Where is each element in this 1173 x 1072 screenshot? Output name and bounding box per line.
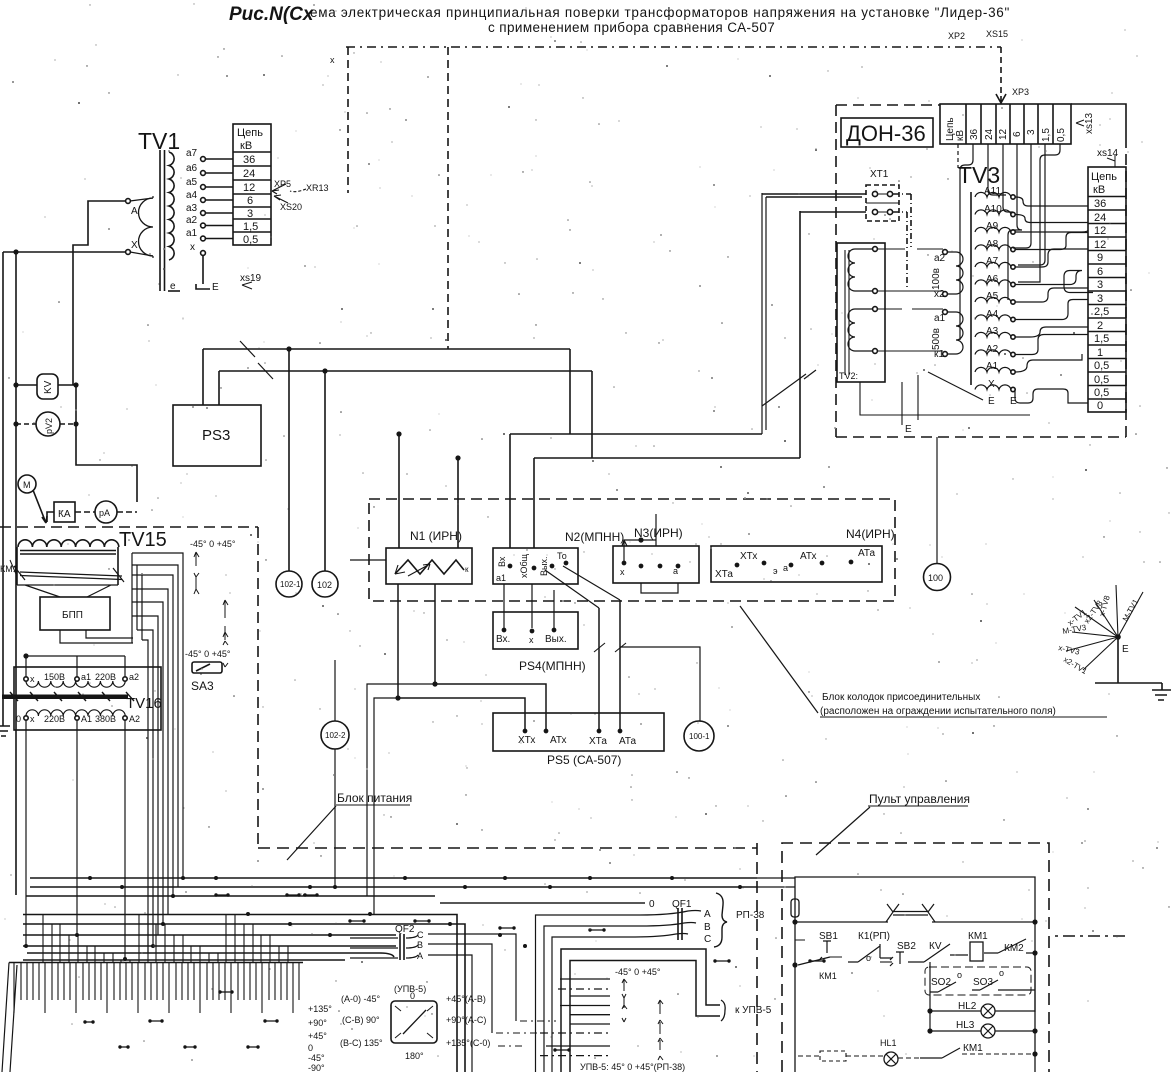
svg-text:а1: а1 bbox=[81, 672, 91, 682]
TV16 bottom winding bbox=[26, 710, 125, 716]
svg-text:XP5: XP5 bbox=[274, 179, 291, 189]
wires winding to table bbox=[205, 159, 233, 239]
svg-text:кВ: кВ bbox=[240, 140, 252, 152]
svg-text:(В-С) 135°: (В-С) 135° bbox=[340, 1038, 383, 1048]
svg-text:xs13: xs13 bbox=[1084, 112, 1095, 134]
svg-text:Х: Х bbox=[988, 379, 995, 390]
svg-text:1: 1 bbox=[1097, 347, 1103, 359]
wire X left bbox=[3, 251, 126, 253]
wire dashed row bbox=[798, 1056, 920, 1058]
wire top feed lines into pult bbox=[757, 878, 795, 887]
comb teeth bbox=[14, 963, 299, 1014]
wire right of pult top bbox=[795, 876, 1035, 878]
svg-text:Рис.N(Сх: Рис.N(Сх bbox=[229, 4, 315, 25]
svg-text:а1: а1 bbox=[496, 573, 506, 583]
svg-text:е: е bbox=[170, 281, 176, 292]
wire N2 to PS4 bbox=[504, 584, 554, 628]
link symbol on top wire bbox=[886, 904, 935, 922]
svg-text:-45° 0 +45°: -45° 0 +45° bbox=[190, 539, 236, 549]
svg-text:ХТа: ХТа bbox=[589, 736, 607, 747]
svg-text:0,5: 0,5 bbox=[1094, 360, 1109, 372]
connector slash marks bbox=[240, 341, 273, 379]
wire M diagonal arrow bbox=[33, 490, 47, 523]
svg-text:24: 24 bbox=[243, 168, 255, 180]
breaker QF1 bars bbox=[678, 908, 682, 940]
svg-text:+45°(А-В): +45°(А-В) bbox=[446, 994, 486, 1004]
transformer TV3 core bbox=[970, 192, 972, 385]
wire TV16 terminal drops bbox=[26, 720, 125, 959]
comparator PS5 box bbox=[493, 713, 664, 751]
dash-dot continuations bbox=[496, 1021, 556, 1046]
test point 100-1 bbox=[684, 721, 714, 751]
svg-text:к УПВ-5: к УПВ-5 bbox=[735, 1005, 772, 1016]
svg-text:х: х bbox=[190, 242, 195, 253]
svg-text:6: 6 bbox=[247, 195, 253, 207]
svg-text:Блок питания: Блок питания bbox=[337, 791, 412, 805]
svg-text:о: о bbox=[999, 968, 1004, 978]
wire to UPV-5 lower bbox=[570, 961, 720, 1072]
QF2 phase lines bbox=[350, 935, 418, 958]
svg-text:АТа: АТа bbox=[619, 736, 637, 747]
svg-text:TV15: TV15 bbox=[119, 529, 167, 551]
wire bus y458 bbox=[534, 457, 800, 459]
svg-text:0,5: 0,5 bbox=[1094, 374, 1109, 386]
svg-text:КМ1: КМ1 bbox=[819, 971, 837, 981]
svg-text:а: а bbox=[783, 563, 788, 573]
ammeter pA bbox=[95, 501, 117, 523]
wire E horizontal bbox=[1095, 682, 1162, 684]
TV16 bottom pins bbox=[24, 716, 28, 720]
svg-text:УПВ-5: 45° 0 +45°(РП-38): УПВ-5: 45° 0 +45°(РП-38) bbox=[580, 1062, 685, 1072]
svg-text:24: 24 bbox=[1094, 212, 1106, 224]
power unit BPP bbox=[40, 597, 110, 630]
TV3 pin labels and terminals bbox=[984, 186, 1015, 392]
rheostat N1 box bbox=[386, 548, 472, 584]
table TV3 kV bbox=[1088, 167, 1126, 412]
terminal strip enclosure dashed bbox=[369, 499, 895, 601]
connector arrows at 12kV row bbox=[272, 184, 288, 203]
amplifier PS4 box bbox=[493, 612, 578, 649]
test point 100 bbox=[924, 564, 951, 591]
callout line bbox=[287, 806, 336, 860]
svg-text:PS3: PS3 bbox=[202, 427, 230, 444]
test point 102-1 bbox=[276, 571, 302, 597]
wire drop to DON-36 with arrow bbox=[1000, 47, 1002, 96]
connector slash on risers bbox=[762, 370, 816, 406]
wire drop x458 to N1 bbox=[457, 458, 459, 548]
svg-text:В: В bbox=[417, 940, 423, 950]
wire contact taps to UPV-5 bbox=[546, 979, 610, 1046]
svg-text:о: о bbox=[866, 953, 871, 963]
wire N3 top bracket bbox=[622, 514, 656, 561]
rotary switch handle bbox=[403, 1010, 426, 1034]
connector XS13 table bbox=[940, 104, 1071, 144]
svg-text:ДОН-36: ДОН-36 bbox=[846, 121, 926, 146]
svg-text:А10: А10 bbox=[984, 204, 1002, 215]
svg-text:102: 102 bbox=[317, 580, 332, 590]
wire to 100-1 bbox=[620, 647, 700, 721]
svg-text:XS20: XS20 bbox=[280, 202, 302, 212]
wire drop to 102 bbox=[324, 371, 326, 571]
pin X bbox=[126, 250, 131, 255]
svg-text:С: С bbox=[417, 930, 424, 940]
riser x570 bbox=[569, 349, 571, 434]
pin A bbox=[126, 199, 131, 204]
bus y903 to QF1 bbox=[440, 902, 645, 904]
svg-text:KV: KV bbox=[43, 380, 54, 394]
QF1 phase lines rising from page bottom bbox=[536, 911, 702, 1072]
bus y924 bbox=[23, 924, 465, 1072]
svg-text:3: 3 bbox=[1026, 129, 1037, 135]
svg-text:х: х bbox=[30, 714, 35, 724]
svg-text:500в: 500в bbox=[931, 328, 942, 350]
wire drop x510 to N2 bbox=[509, 434, 511, 548]
wire vertical drop x448 bbox=[447, 47, 449, 349]
svg-text:х: х bbox=[330, 55, 335, 65]
svg-text:а2: а2 bbox=[186, 215, 198, 226]
rheostat N1 element bbox=[395, 560, 464, 574]
svg-text:180°: 180° bbox=[405, 1051, 424, 1061]
bus y946 bbox=[23, 945, 396, 947]
svg-text:НL2: НL2 bbox=[958, 1001, 977, 1012]
dashed right edge of power block bbox=[756, 843, 758, 1072]
wire 0 line bbox=[440, 902, 645, 904]
svg-text:-45° 0 +45°: -45° 0 +45° bbox=[185, 649, 231, 659]
wire N2 Vyh diagonal bbox=[545, 566, 620, 608]
svg-text:С: С bbox=[704, 934, 711, 945]
wire x pin down bbox=[202, 255, 204, 284]
wire 102-2 stub down bbox=[334, 749, 336, 886]
svg-text:э: э bbox=[773, 566, 778, 576]
table TV1 kV bbox=[233, 124, 271, 246]
svg-text:хОбщ: хОбщ bbox=[519, 553, 529, 578]
connector slashes on drops bbox=[594, 643, 626, 652]
bus y896 bbox=[26, 895, 435, 897]
svg-text:6: 6 bbox=[1097, 266, 1103, 278]
wire N3 bottom loop bbox=[641, 583, 678, 593]
svg-text:-45° 0 +45°: -45° 0 +45° bbox=[615, 967, 661, 977]
svg-text:102-1: 102-1 bbox=[280, 580, 301, 589]
test point 102-2 bbox=[321, 721, 349, 749]
svg-text:НL3: НL3 bbox=[956, 1020, 975, 1031]
svg-text:КА: КА bbox=[58, 509, 71, 520]
svg-text:а4: а4 bbox=[186, 190, 198, 201]
svg-text:Е: Е bbox=[1122, 644, 1129, 655]
svg-text:А1: А1 bbox=[986, 361, 999, 372]
wire BPP bottom stubs bbox=[60, 630, 133, 643]
UPV-5 contact comb top bus bbox=[9, 962, 303, 964]
wire right branch down to pA bbox=[76, 385, 137, 502]
svg-text:36: 36 bbox=[1094, 198, 1106, 210]
svg-text:3: 3 bbox=[1097, 293, 1103, 305]
svg-text:А7: А7 bbox=[986, 256, 999, 267]
relay KA bbox=[54, 502, 75, 522]
wire left entries descending to buses bbox=[367, 684, 435, 914]
terminal block XT1 dashed bbox=[866, 169, 911, 290]
breaker QF2 bars bbox=[400, 934, 404, 960]
transformer TV1 primary winding bbox=[139, 198, 154, 256]
svg-text:Цепь: Цепь bbox=[237, 127, 263, 139]
svg-text:М-ТV3: М-ТV3 bbox=[1062, 623, 1088, 636]
wire E diagonal bbox=[928, 372, 983, 400]
TV15 to BPP funnel bbox=[17, 585, 118, 597]
svg-text:0: 0 bbox=[308, 1043, 313, 1053]
callout line kolodki bbox=[740, 606, 818, 713]
wire 102-2 stub up bbox=[334, 660, 336, 721]
TV15 brush bar bbox=[14, 566, 124, 582]
svg-text:А6: А6 bbox=[986, 274, 999, 285]
wire top row bbox=[795, 921, 1035, 923]
svg-text:Вых.: Вых. bbox=[545, 634, 567, 645]
svg-text:а1: а1 bbox=[934, 313, 946, 324]
svg-text:1,5: 1,5 bbox=[243, 221, 258, 233]
TV2 winding 1 bbox=[848, 249, 873, 291]
svg-text:То: То bbox=[557, 551, 567, 561]
DON-36 nameplate bbox=[841, 118, 933, 147]
svg-text:кВ: кВ bbox=[955, 130, 966, 141]
svg-text:Е: Е bbox=[905, 424, 912, 435]
svg-text:N2(МПНН): N2(МПНН) bbox=[565, 530, 624, 544]
wires TV2 to secondary bbox=[877, 248, 943, 250]
svg-text:Вх.: Вх. bbox=[496, 634, 510, 645]
svg-text:36: 36 bbox=[243, 154, 255, 166]
TV16 top winding bbox=[26, 681, 125, 687]
svg-text:N4(ИРН): N4(ИРН) bbox=[846, 527, 895, 541]
svg-text:АТх: АТх bbox=[800, 551, 817, 562]
TV16 top pins bbox=[24, 677, 28, 681]
svg-text:102-2: 102-2 bbox=[325, 731, 346, 740]
callout line bbox=[816, 807, 870, 855]
svg-text:(расположен на ограждении испы: (расположен на ограждении испытательного… bbox=[820, 706, 1056, 717]
svg-text:КМ1: КМ1 bbox=[963, 1043, 983, 1054]
wire BPP staircase bundle bbox=[132, 553, 183, 953]
svg-text:АТа: АТа bbox=[858, 548, 876, 559]
multiplier N2 box bbox=[493, 548, 578, 584]
voltmeter KV bbox=[37, 374, 58, 399]
TV2 secondary winding a1-k1 bbox=[948, 312, 963, 354]
regulator N3 box bbox=[613, 546, 699, 583]
wire PS3 to riser y349 bbox=[203, 348, 570, 350]
svg-text:с применением прибора сравнени: с применением прибора сравнения СА-507 bbox=[488, 20, 775, 35]
wire drop to 102-1 bbox=[288, 349, 290, 571]
connector xs13 label bbox=[1076, 120, 1084, 126]
svg-text:А5: А5 bbox=[986, 291, 999, 302]
motor M bbox=[18, 475, 36, 493]
angle list left bbox=[308, 1004, 332, 1072]
svg-text:24: 24 bbox=[984, 128, 995, 140]
svg-text:150В: 150В bbox=[44, 672, 65, 682]
svg-text:Е: Е bbox=[988, 396, 995, 407]
svg-text:3: 3 bbox=[1097, 279, 1103, 291]
riser x592 bbox=[591, 371, 593, 458]
wire pV2 row bbox=[16, 423, 76, 425]
svg-text:А4: А4 bbox=[986, 309, 999, 320]
wire N1 to PS5 path1 bbox=[398, 584, 525, 729]
svg-text:А1: А1 bbox=[81, 714, 92, 724]
svg-text:+90°(А-С): +90°(А-С) bbox=[446, 1015, 486, 1025]
svg-text:А3: А3 bbox=[986, 326, 999, 337]
svg-text:А9: А9 bbox=[986, 221, 999, 232]
bus y935 bbox=[23, 934, 396, 936]
svg-text:220В: 220В bbox=[95, 672, 116, 682]
svg-text:к: к bbox=[465, 565, 469, 574]
transformer TV15 core bbox=[20, 551, 116, 555]
svg-text:(А-0) -45°: (А-0) -45° bbox=[341, 994, 381, 1004]
ground fan node E bbox=[1066, 585, 1143, 670]
transformer TV3 windings A11..X bbox=[975, 192, 1011, 389]
staircase verticals bbox=[132, 553, 142, 643]
svg-text:+135°(С-0): +135°(С-0) bbox=[446, 1038, 490, 1048]
svg-text:Пульт управления: Пульт управления bbox=[869, 792, 970, 806]
svg-text:ХР3: ХР3 bbox=[1012, 87, 1029, 97]
TITLEBLOCK bbox=[229, 4, 1010, 35]
QF2 output wires stepping down bbox=[428, 934, 516, 1072]
svg-text:QF2: QF2 bbox=[395, 924, 415, 935]
svg-text:х-ТV3: х-ТV3 bbox=[1058, 643, 1081, 657]
svg-text:36: 36 bbox=[969, 128, 980, 140]
wire XTa ATa drops bbox=[599, 600, 620, 731]
svg-text:А2: А2 bbox=[986, 344, 999, 355]
ground symbol right bbox=[1152, 690, 1171, 700]
svg-text:х2-ТV1: х2-ТV1 bbox=[1062, 655, 1089, 676]
svg-text:Вых.: Вых. bbox=[539, 557, 549, 576]
svg-text:РП-38: РП-38 bbox=[736, 910, 765, 921]
svg-text:6: 6 bbox=[1012, 131, 1023, 137]
svg-text:PS5 (СА-507): PS5 (СА-507) bbox=[547, 753, 621, 767]
svg-text:х: х bbox=[620, 567, 625, 577]
svg-text:кВ: кВ bbox=[1093, 184, 1105, 196]
wire top dashed bus bbox=[346, 46, 1001, 48]
svg-text:А: А bbox=[131, 206, 138, 217]
svg-text:рА: рА bbox=[99, 508, 110, 518]
svg-text:ХТх: ХТх bbox=[740, 551, 757, 562]
switch SA3 bbox=[192, 662, 222, 673]
svg-text:ХТа: ХТа bbox=[715, 569, 733, 580]
switches SO2 SO3 dashed surround bbox=[925, 967, 1031, 995]
svg-text:ХТ1: ХТ1 bbox=[870, 169, 889, 180]
svg-text:XS15: XS15 bbox=[986, 29, 1008, 39]
svg-text:SВ1: SВ1 bbox=[819, 931, 838, 942]
svg-text:0,5: 0,5 bbox=[1094, 387, 1109, 399]
wire drop x399 to N1 bbox=[398, 434, 400, 548]
svg-text:N1 (ИРН): N1 (ИРН) bbox=[410, 529, 462, 543]
wire dash right outside bbox=[1055, 935, 1125, 937]
svg-text:SО3: SО3 bbox=[973, 977, 993, 988]
svg-text:SВ2: SВ2 bbox=[897, 941, 916, 952]
transformer TV16 box bbox=[14, 667, 161, 730]
svg-text:М: М bbox=[23, 480, 31, 490]
svg-text:XR13: XR13 bbox=[306, 183, 329, 193]
svg-text:Цепь: Цепь bbox=[1091, 171, 1117, 183]
svg-text:TV1: TV1 bbox=[138, 128, 180, 154]
test point 102 bbox=[312, 571, 338, 597]
svg-text:PS4(МПНН): PS4(МПНН) bbox=[519, 659, 586, 673]
svg-text:Е: Е bbox=[212, 282, 219, 293]
TV2 secondary winding a2-x2 bbox=[948, 252, 963, 294]
bus y953 bbox=[27, 953, 394, 957]
wire PS3 top feeds bbox=[203, 349, 219, 405]
svg-text:Блок колодок присоединительных: Блок колодок присоединительных bbox=[822, 692, 980, 703]
svg-text:(С-В) 90°: (С-В) 90° bbox=[342, 1015, 380, 1025]
riser x762 pair to XT1 bbox=[762, 193, 766, 434]
svg-text:0: 0 bbox=[16, 714, 21, 724]
svg-text:0: 0 bbox=[1097, 400, 1103, 412]
svg-text:а6: а6 bbox=[186, 163, 198, 174]
wire E down bbox=[1117, 637, 1119, 683]
svg-text:220В: 220В bbox=[44, 714, 65, 724]
SA3 dashed arrows top bbox=[194, 552, 199, 594]
svg-text:+45°: +45° bbox=[308, 1031, 327, 1041]
wire left bus x16 bbox=[15, 252, 17, 895]
wire A left bbox=[73, 201, 126, 385]
svg-text:БПП: БПП bbox=[62, 610, 83, 621]
slanted exit wires bottom left bbox=[2, 963, 17, 1072]
svg-text:а2: а2 bbox=[934, 253, 946, 264]
svg-text:100в: 100в bbox=[931, 268, 942, 290]
bus y878 bbox=[30, 877, 757, 879]
svg-text:ХР2: ХР2 bbox=[948, 31, 965, 41]
svg-text:а7: а7 bbox=[186, 148, 198, 159]
transformer TV15 winding bbox=[18, 540, 119, 547]
svg-text:К1(РП): К1(РП) bbox=[858, 931, 890, 942]
svg-text:SА3: SА3 bbox=[191, 679, 214, 693]
svg-text:12: 12 bbox=[1094, 239, 1106, 251]
svg-text:12: 12 bbox=[1094, 225, 1106, 237]
svg-text:12: 12 bbox=[998, 128, 1009, 140]
svg-text:0,5: 0,5 bbox=[1056, 128, 1067, 142]
brace RP-38 bbox=[714, 893, 727, 947]
dashed enclosure left top bbox=[0, 527, 258, 849]
wire TV16 top feeds bbox=[26, 656, 125, 677]
TV2 winding 2 bbox=[848, 309, 873, 351]
svg-text:АТх: АТх bbox=[550, 735, 567, 746]
rotary switch UPV-5 box bbox=[391, 1001, 437, 1043]
wire drop x534 to N2 bbox=[533, 458, 535, 548]
svg-text:Вх: Вх bbox=[497, 556, 507, 567]
svg-text:3: 3 bbox=[247, 208, 253, 220]
power supply PS3 bbox=[173, 405, 261, 466]
svg-text:а5: а5 bbox=[186, 177, 198, 188]
svg-text:0,5: 0,5 bbox=[243, 234, 258, 246]
wire vertical drop to XR5 plug bbox=[347, 47, 349, 193]
svg-text:о: о bbox=[957, 970, 962, 980]
bus y887 bbox=[30, 886, 757, 888]
bus y960 bbox=[23, 959, 345, 961]
brace k UPV-5 bbox=[721, 1000, 725, 1021]
svg-text:-45°: -45° bbox=[308, 1053, 325, 1063]
svg-text:0: 0 bbox=[410, 991, 415, 1001]
svg-text:А8: А8 bbox=[986, 239, 999, 250]
svg-text:12: 12 bbox=[243, 182, 255, 194]
svg-text:Х: Х bbox=[131, 240, 138, 251]
wires TV3 to right table bbox=[1015, 197, 1093, 403]
wire N1 to PS5 path2 bbox=[435, 584, 546, 729]
wire N1 left stub bbox=[350, 559, 386, 561]
svg-text:А: А bbox=[704, 909, 711, 920]
wire 100 feed from DON bbox=[936, 437, 938, 563]
junction dots bbox=[24, 876, 742, 961]
wire risers from buses to comb bbox=[43, 915, 288, 963]
ground e mark left bbox=[168, 290, 180, 292]
svg-text:100-1: 100-1 bbox=[689, 732, 710, 741]
svg-text:М-ТV1: М-ТV1 bbox=[1121, 597, 1141, 623]
wire KV row bbox=[16, 384, 76, 386]
svg-text:В: В bbox=[704, 922, 711, 933]
bus y914 bbox=[23, 915, 457, 1072]
svg-text:ХТх: ХТх bbox=[518, 735, 535, 746]
voltmeter pV2 bbox=[36, 412, 60, 436]
svg-text:+90°: +90° bbox=[308, 1018, 327, 1028]
